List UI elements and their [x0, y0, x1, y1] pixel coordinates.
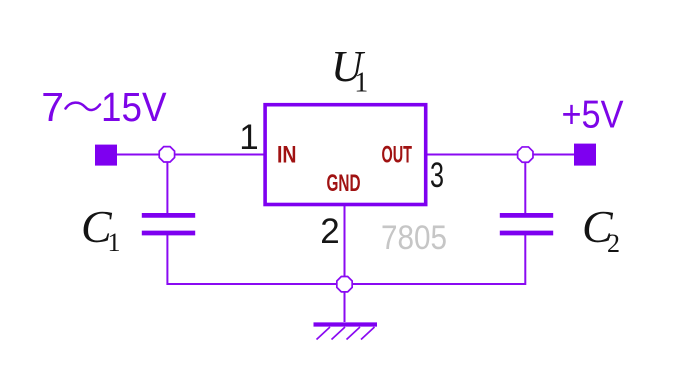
regulator U1: 7805 box [265, 105, 426, 205]
svg-text:OUT: OUT [382, 142, 413, 169]
wire GND pin down to ground [344, 205, 346, 322]
svg-text:3: 3 [430, 156, 444, 195]
svg-text:+5V: +5V [562, 94, 624, 137]
svg-text:IN: IN [277, 142, 297, 169]
wire C1 top [166, 155, 168, 215]
svg-text:GND: GND [327, 170, 361, 197]
wire C2 bottom to ground rail [345, 234, 526, 284]
svg-text:7: 7 [41, 84, 64, 130]
net label 7~15V [41, 84, 167, 130]
capacitor C2 plates [500, 215, 553, 233]
svg-text:2: 2 [320, 212, 339, 251]
ground [314, 325, 378, 340]
wire output: regulator OUT to square [426, 154, 575, 156]
label C1 [81, 201, 121, 257]
wire C2 top [524, 155, 526, 215]
svg-text:15V: 15V [101, 84, 167, 130]
node A: input junction [159, 147, 174, 162]
svg-text:1: 1 [239, 118, 258, 157]
wire input: square to regulator IN [116, 154, 265, 156]
wire C1 bottom to ground rail [167, 234, 344, 284]
label C2 [582, 201, 620, 258]
output terminal square [574, 144, 596, 166]
node C: ground junction [337, 277, 352, 292]
svg-text:7805: 7805 [381, 219, 447, 257]
node B: output junction [518, 147, 533, 162]
svg-text:1: 1 [108, 228, 121, 257]
svg-text:2: 2 [607, 229, 620, 258]
svg-text:1: 1 [354, 68, 368, 99]
capacitor C1 plates [142, 215, 195, 233]
input terminal square [95, 145, 117, 166]
label U1 [331, 42, 368, 99]
